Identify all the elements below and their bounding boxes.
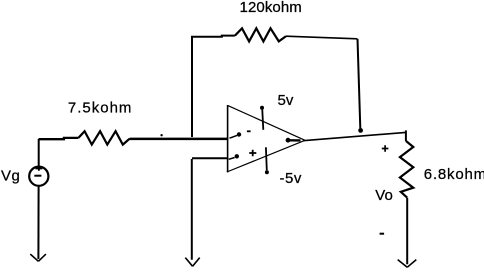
svg-text:120kohm: 120kohm	[240, 0, 302, 16]
wire feedback right vertical	[358, 39, 361, 129]
ground arrow left	[30, 254, 46, 261]
wire Vg top stem	[38, 139, 40, 167]
op-amp output dot and tail	[286, 138, 291, 143]
source Vg circle	[29, 167, 48, 186]
node feedback-output junction dot	[358, 128, 363, 133]
svg-text:7.5kohm: 7.5kohm	[68, 100, 133, 117]
source Vg plus sign	[36, 166, 43, 171]
op-amp U1 bottom edge	[227, 140, 305, 172]
ground arrow right	[398, 260, 417, 268]
svg-text:Vo: Vo	[375, 187, 393, 204]
svg-text:5v: 5v	[278, 92, 294, 109]
op-amp U1 left edge	[227, 105, 229, 172]
wire non-inverting input	[192, 157, 228, 159]
wire Vg bottom stem	[37, 186, 39, 259]
ground arrow center	[185, 258, 199, 267]
resistor R2 120kohm zigzag	[235, 28, 286, 41]
svg-text:Vg: Vg	[1, 167, 20, 184]
label minus output	[380, 233, 385, 235]
node small dot on input wire	[160, 134, 162, 136]
wire R3 to ground	[406, 198, 408, 265]
wire feedback top left segment	[191, 36, 235, 37]
wire center ground vertical	[191, 159, 193, 260]
resistor R3 6.8kohm zigzag	[400, 141, 413, 198]
op-amp U1 top edge	[228, 105, 305, 140]
op-amp minus sign	[247, 130, 251, 132]
resistor R1 7.5kohm zigzag	[78, 131, 130, 144]
op-amp non-inverting input dot and tail	[229, 158, 235, 160]
source Vg minus sign	[34, 175, 41, 177]
power -5v pin stroke and dot	[265, 147, 268, 170]
svg-text:-5v: -5v	[280, 170, 302, 187]
wire feedback left vertical	[191, 37, 193, 137]
op-amp inverting input dot and tail	[230, 135, 238, 138]
svg-text:6.8kohm: 6.8kohm	[424, 166, 484, 183]
op-amp plus sign	[249, 150, 256, 157]
power 5v pin stroke and dot	[260, 106, 264, 110]
wire feedback top right segment	[286, 36, 357, 39]
wire R1 to op-amp inverting input	[130, 138, 228, 141]
wire from Vg to R1	[39, 138, 79, 139]
label plus output	[382, 145, 389, 152]
wire op-amp output	[303, 132, 406, 140]
